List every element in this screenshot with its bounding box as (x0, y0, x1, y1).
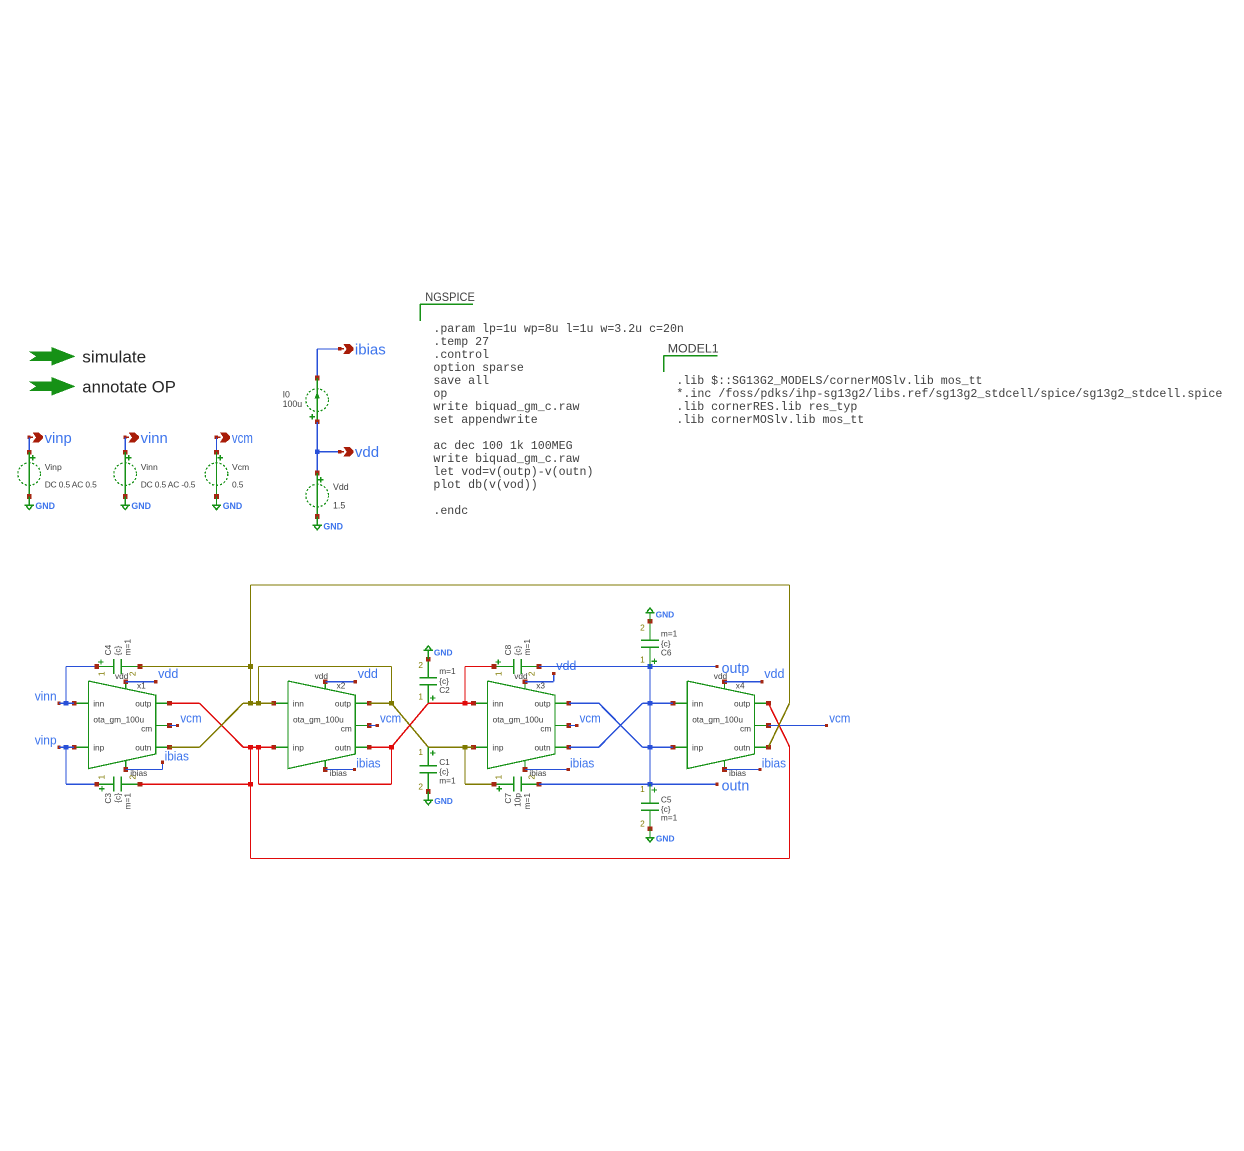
svg-text:outp: outp (534, 698, 551, 708)
svg-text:vcm: vcm (232, 430, 253, 447)
svg-text:cm: cm (141, 723, 152, 733)
svg-text:cm: cm (341, 723, 352, 733)
svg-text:.endc: .endc (433, 505, 468, 518)
svg-text:inn: inn (492, 698, 503, 708)
svg-text:set appendwrite: set appendwrite (433, 414, 537, 427)
svg-text:10p: 10p (513, 793, 523, 807)
svg-text:inp: inp (293, 742, 304, 752)
svg-text:1: 1 (97, 775, 107, 780)
svg-text:ac dec 100 1k 100MEG: ac dec 100 1k 100MEG (433, 440, 572, 453)
svg-text:vdd: vdd (358, 666, 378, 681)
svg-text:inp: inp (492, 742, 503, 752)
svg-text:simulate: simulate (82, 347, 146, 366)
svg-text:GND: GND (323, 521, 343, 531)
svg-text:outn: outn (722, 779, 750, 795)
svg-text:GND: GND (656, 610, 675, 620)
svg-text:m=1: m=1 (661, 813, 678, 823)
svg-text:ibias: ibias (355, 341, 386, 358)
svg-text:ota_gm_100u: ota_gm_100u (93, 714, 144, 724)
svg-text:2: 2 (526, 775, 536, 780)
svg-text:vinn: vinn (141, 430, 168, 447)
svg-text:1: 1 (97, 671, 107, 676)
svg-text:ibias: ibias (570, 756, 595, 771)
svg-text:0.5: 0.5 (232, 480, 244, 490)
svg-text:inn: inn (293, 698, 304, 708)
svg-text:vdd: vdd (355, 444, 379, 461)
svg-text:let vod=v(outp)-v(outn): let vod=v(outp)-v(outn) (433, 466, 593, 479)
svg-text:outp: outp (734, 698, 751, 708)
svg-text:m=1: m=1 (439, 776, 456, 786)
svg-text:inp: inp (692, 742, 703, 752)
svg-text:outn: outn (135, 742, 152, 752)
svg-text:vinn: vinn (35, 689, 57, 704)
svg-text:Vdd: Vdd (333, 482, 349, 492)
svg-text:ibias: ibias (356, 756, 381, 771)
svg-text:GND: GND (656, 833, 675, 843)
svg-text:2: 2 (526, 671, 536, 676)
svg-text:1: 1 (418, 747, 423, 757)
svg-text:annotate OP: annotate OP (82, 377, 176, 396)
svg-text:vdd: vdd (158, 666, 178, 681)
svg-text:m=1: m=1 (522, 639, 532, 656)
svg-text:.param lp=1u wp=8u l=1u w=3.2u: .param lp=1u wp=8u l=1u w=3.2u c=20n (433, 323, 683, 336)
svg-text:ota_gm_100u: ota_gm_100u (293, 714, 344, 724)
svg-text:m=1: m=1 (439, 666, 456, 676)
svg-text:ota_gm_100u: ota_gm_100u (493, 714, 544, 724)
svg-text:1: 1 (494, 775, 504, 780)
svg-text:plot db(v(vod)): plot db(v(vod)) (433, 479, 537, 492)
svg-text:inn: inn (93, 698, 104, 708)
svg-text:1: 1 (640, 655, 645, 665)
svg-text:vcm: vcm (580, 711, 601, 726)
svg-text:outp: outp (135, 698, 152, 708)
svg-text:I0: I0 (283, 389, 290, 399)
svg-text:C4: C4 (103, 644, 113, 655)
svg-text:vinp: vinp (35, 733, 57, 748)
svg-text:C6: C6 (661, 647, 672, 657)
svg-text:2: 2 (640, 819, 645, 829)
svg-text:{c}: {c} (513, 645, 523, 655)
svg-text:NGSPICE: NGSPICE (425, 290, 475, 304)
svg-text:vdd: vdd (764, 666, 784, 681)
svg-text:GND: GND (434, 796, 453, 806)
svg-text:.lib $::SG13G2_MODELS/cornerMO: .lib $::SG13G2_MODELS/cornerMOSlv.lib mo… (676, 375, 982, 388)
svg-text:cm: cm (740, 723, 751, 733)
svg-text:save all: save all (433, 375, 489, 388)
svg-text:C8: C8 (503, 644, 513, 655)
svg-text:m=1: m=1 (661, 629, 678, 639)
svg-text:.lib cornerRES.lib res_typ: .lib cornerRES.lib res_typ (676, 401, 857, 414)
svg-text:inn: inn (692, 698, 703, 708)
svg-text:DC 0.5 AC -0.5: DC 0.5 AC -0.5 (141, 480, 196, 490)
svg-text:1: 1 (418, 691, 423, 701)
svg-text:outn: outn (734, 742, 751, 752)
svg-text:ota_gm_100u: ota_gm_100u (692, 714, 743, 724)
svg-text:{c}: {c} (113, 793, 123, 803)
svg-text:cm: cm (540, 723, 551, 733)
svg-text:C2: C2 (439, 685, 450, 695)
svg-text:ibias: ibias (762, 756, 787, 771)
svg-text:.temp 27: .temp 27 (433, 336, 489, 349)
svg-text:{c}: {c} (113, 645, 123, 655)
svg-text:GND: GND (35, 501, 55, 511)
svg-text:vinp: vinp (45, 430, 72, 447)
svg-text:.control: .control (433, 349, 489, 362)
svg-text:inp: inp (93, 742, 104, 752)
svg-text:m=1: m=1 (122, 639, 132, 656)
svg-text:*.inc /foss/pdks/ihp-sg13g2/li: *.inc /foss/pdks/ihp-sg13g2/libs.ref/sg1… (676, 388, 1222, 401)
svg-text:ibias: ibias (165, 749, 190, 764)
svg-text:GND: GND (223, 501, 243, 511)
svg-text:C3: C3 (103, 793, 113, 804)
svg-text:2: 2 (418, 660, 423, 670)
svg-text:vcm: vcm (180, 711, 201, 726)
svg-text:2: 2 (128, 775, 138, 780)
svg-text:outn: outn (534, 742, 551, 752)
svg-text:GND: GND (131, 501, 151, 511)
svg-text:vcm: vcm (829, 711, 850, 726)
svg-text:Vinn: Vinn (141, 462, 158, 472)
svg-text:outn: outn (335, 742, 352, 752)
svg-text:outp: outp (722, 661, 750, 677)
svg-text:1: 1 (640, 784, 645, 794)
svg-text:outp: outp (335, 698, 352, 708)
svg-text:MODEL1: MODEL1 (668, 341, 719, 355)
svg-text:2: 2 (640, 622, 645, 632)
svg-text:Vcm: Vcm (232, 462, 249, 472)
svg-text:1: 1 (494, 671, 504, 676)
svg-text:2: 2 (128, 671, 138, 676)
svg-text:vdd: vdd (315, 671, 329, 681)
svg-text:GND: GND (434, 647, 453, 657)
svg-text:1.5: 1.5 (333, 501, 345, 511)
svg-text:100u: 100u (283, 399, 303, 409)
svg-text:2: 2 (418, 781, 423, 791)
svg-text:m=1: m=1 (522, 793, 532, 810)
svg-text:vdd: vdd (556, 658, 576, 673)
svg-text:write biquad_gm_c.raw: write biquad_gm_c.raw (433, 401, 579, 414)
svg-text:.lib cornerMOSlv.lib mos_tt: .lib cornerMOSlv.lib mos_tt (676, 414, 864, 427)
svg-text:m=1: m=1 (122, 793, 132, 810)
svg-text:DC 0.5 AC 0.5: DC 0.5 AC 0.5 (45, 480, 97, 490)
svg-text:vcm: vcm (380, 711, 401, 726)
svg-text:C7: C7 (503, 793, 513, 804)
svg-text:option sparse: option sparse (433, 362, 523, 375)
svg-text:op: op (433, 388, 447, 401)
svg-text:Vinp: Vinp (45, 462, 62, 472)
svg-text:write biquad_gm_c.raw: write biquad_gm_c.raw (433, 453, 579, 466)
